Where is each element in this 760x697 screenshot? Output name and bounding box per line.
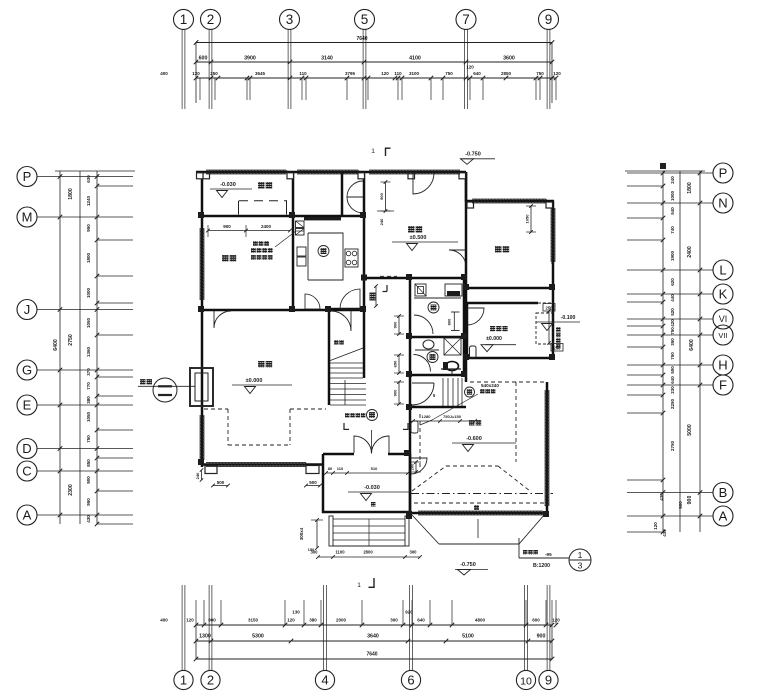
svg-text:2750: 2750 (670, 440, 675, 451)
svg-text:3140: 3140 (321, 56, 333, 62)
svg-text:1000: 1000 (670, 190, 675, 201)
svg-text:110: 110 (299, 71, 307, 76)
svg-text:5000: 5000 (687, 424, 693, 436)
svg-text:2000: 2000 (336, 618, 347, 623)
svg-text:750J=150: 750J=150 (443, 414, 462, 419)
svg-text:F: F (719, 378, 727, 393)
svg-text:400: 400 (160, 71, 168, 76)
svg-text:±0.500: ±0.500 (410, 235, 427, 241)
svg-text:H: H (718, 358, 727, 373)
svg-text:3795: 3795 (345, 71, 356, 76)
svg-text:±0.000: ±0.000 (486, 336, 502, 342)
svg-text:500: 500 (217, 480, 225, 485)
svg-text:5: 5 (361, 12, 369, 27)
svg-text:750: 750 (670, 327, 675, 335)
svg-text:120: 120 (466, 65, 474, 70)
svg-text:150: 150 (308, 547, 315, 552)
svg-text:-0.100: -0.100 (561, 315, 576, 321)
svg-text:1800: 1800 (86, 252, 91, 263)
svg-text:750: 750 (445, 71, 453, 76)
svg-text:640: 640 (417, 618, 425, 623)
svg-text:500: 500 (309, 480, 317, 485)
svg-text:C: C (22, 464, 31, 479)
svg-text:1900: 1900 (670, 250, 675, 261)
svg-text:120: 120 (381, 71, 389, 76)
svg-text:640: 640 (473, 71, 481, 76)
svg-text:1: 1 (357, 582, 361, 589)
svg-text:750: 750 (86, 435, 91, 443)
svg-text:400: 400 (160, 618, 168, 623)
svg-text:3600: 3600 (503, 56, 515, 62)
svg-text:110: 110 (337, 466, 344, 471)
svg-text:110: 110 (394, 71, 402, 76)
svg-text:L: L (719, 263, 726, 278)
svg-text:430: 430 (662, 529, 667, 537)
svg-text:2: 2 (207, 12, 215, 27)
svg-text:1: 1 (180, 673, 187, 688)
svg-text:J: J (24, 302, 31, 317)
svg-text:130: 130 (292, 610, 300, 615)
svg-text:2300: 2300 (68, 484, 74, 496)
svg-text:5100: 5100 (462, 634, 474, 640)
svg-text:240: 240 (379, 218, 384, 225)
svg-text:430: 430 (659, 493, 664, 501)
svg-text:900: 900 (208, 618, 216, 623)
svg-text:2400: 2400 (261, 224, 272, 229)
svg-text:900: 900 (393, 389, 398, 396)
svg-text:1050: 1050 (525, 214, 530, 224)
svg-text:440: 440 (670, 294, 675, 302)
svg-text:120: 120 (553, 71, 561, 76)
svg-text:B:1200: B:1200 (533, 563, 550, 569)
svg-text:800: 800 (447, 318, 452, 325)
svg-text:9: 9 (545, 12, 553, 27)
svg-text:750: 750 (536, 71, 544, 76)
svg-text:250: 250 (210, 71, 218, 76)
svg-text:4100: 4100 (409, 56, 421, 62)
svg-text:3640: 3640 (367, 634, 379, 640)
svg-text:950: 950 (86, 498, 91, 506)
svg-text:3: 3 (578, 561, 583, 571)
svg-text:240: 240 (670, 176, 675, 184)
svg-text:1050: 1050 (86, 317, 91, 328)
svg-text:950: 950 (86, 224, 91, 232)
svg-text:3900: 3900 (244, 56, 256, 62)
svg-text:120: 120 (653, 522, 658, 530)
svg-text:G: G (22, 363, 32, 378)
svg-text:E: E (23, 398, 32, 413)
svg-text:2: 2 (207, 673, 214, 688)
svg-text:7640: 7640 (366, 652, 377, 658)
svg-text:540: 540 (670, 207, 675, 215)
svg-text:250: 250 (546, 306, 554, 311)
svg-text:80: 80 (328, 466, 333, 471)
svg-text:10: 10 (520, 676, 532, 688)
svg-text:VI: VI (719, 314, 728, 324)
svg-text:430: 430 (86, 515, 91, 523)
svg-text:1240: 1240 (86, 195, 91, 206)
svg-text:620: 620 (670, 278, 675, 286)
svg-text:420: 420 (670, 319, 675, 327)
svg-text:9: 9 (545, 673, 552, 688)
svg-text:-0.030: -0.030 (220, 182, 236, 188)
svg-text:2750: 2750 (68, 334, 74, 346)
svg-text:200: 200 (410, 463, 415, 470)
svg-text:900: 900 (393, 321, 398, 328)
svg-text:600: 600 (532, 618, 540, 623)
svg-text:P: P (719, 166, 728, 181)
svg-text:A: A (23, 508, 32, 523)
svg-text:6400: 6400 (689, 339, 695, 351)
svg-text:650: 650 (393, 360, 398, 367)
svg-text:750: 750 (670, 352, 675, 360)
svg-text:1: 1 (180, 12, 188, 27)
svg-text:-95: -95 (545, 552, 552, 557)
svg-text:510: 510 (371, 466, 378, 471)
svg-text:1000: 1000 (86, 287, 91, 298)
svg-text:300x4: 300x4 (299, 527, 304, 540)
svg-text:VII: VII (718, 331, 727, 340)
svg-text:3645: 3645 (255, 71, 266, 76)
svg-text:5300: 5300 (252, 634, 264, 640)
svg-text:1360: 1360 (86, 346, 91, 357)
svg-text:740: 740 (670, 226, 675, 234)
svg-text:300: 300 (410, 550, 418, 555)
svg-text:2250: 2250 (670, 398, 675, 409)
svg-text:2850: 2850 (501, 71, 512, 76)
svg-text:900: 900 (537, 634, 546, 640)
svg-text:1280: 1280 (422, 414, 432, 419)
svg-text:120: 120 (287, 618, 295, 623)
svg-text:770: 770 (86, 382, 91, 390)
svg-text:380: 380 (309, 618, 317, 623)
svg-text:600: 600 (199, 56, 208, 62)
svg-text:1300: 1300 (199, 634, 211, 640)
svg-text:2400: 2400 (687, 246, 693, 258)
svg-text:4: 4 (321, 673, 328, 688)
svg-text:M: M (22, 210, 33, 225)
svg-text:240: 240 (195, 472, 200, 479)
svg-text:380: 380 (86, 396, 91, 404)
svg-text:-0.750: -0.750 (460, 562, 476, 568)
svg-text:630: 630 (86, 175, 91, 183)
svg-text:1: 1 (578, 550, 583, 560)
svg-text:7640: 7640 (356, 36, 367, 42)
svg-text:1800: 1800 (68, 188, 74, 200)
svg-text:900: 900 (687, 496, 693, 505)
svg-text:A: A (719, 509, 728, 524)
svg-text:250: 250 (554, 346, 562, 351)
svg-text:120: 120 (186, 618, 194, 623)
svg-text:350: 350 (670, 338, 675, 346)
svg-text:1100: 1100 (335, 550, 345, 555)
svg-text:6: 6 (407, 673, 414, 688)
svg-text:-0.030: -0.030 (364, 485, 380, 491)
svg-text:1: 1 (371, 148, 375, 155)
svg-text:K: K (719, 287, 728, 302)
svg-text:B: B (719, 485, 728, 500)
svg-text:900: 900 (678, 501, 683, 509)
svg-text:1050: 1050 (86, 411, 91, 422)
svg-text:P: P (23, 169, 32, 184)
svg-text:850: 850 (86, 459, 91, 467)
svg-text:520: 520 (670, 308, 675, 316)
svg-text:370: 370 (86, 368, 91, 376)
svg-text:6400: 6400 (53, 339, 59, 351)
svg-text:2800: 2800 (363, 550, 373, 555)
svg-text:-0.750: -0.750 (465, 152, 481, 158)
svg-text:900: 900 (86, 476, 91, 484)
svg-text:±0.000: ±0.000 (246, 378, 263, 384)
svg-text:900: 900 (223, 224, 231, 229)
svg-text:3: 3 (286, 12, 294, 27)
svg-text:3100: 3100 (409, 71, 420, 76)
svg-text:4800: 4800 (475, 618, 486, 623)
svg-text:7: 7 (462, 12, 470, 27)
svg-text:D: D (22, 441, 31, 456)
svg-text:N: N (718, 196, 727, 211)
svg-text:640: 640 (670, 376, 675, 384)
svg-text:900: 900 (379, 192, 384, 199)
svg-text:540x240: 540x240 (481, 383, 499, 388)
svg-text:1800: 1800 (687, 182, 693, 194)
svg-text:-0.600: -0.600 (466, 436, 482, 442)
svg-text:230: 230 (670, 386, 675, 394)
svg-text:300: 300 (390, 618, 398, 623)
svg-text:500: 500 (670, 366, 675, 374)
svg-text:3150: 3150 (248, 618, 259, 623)
